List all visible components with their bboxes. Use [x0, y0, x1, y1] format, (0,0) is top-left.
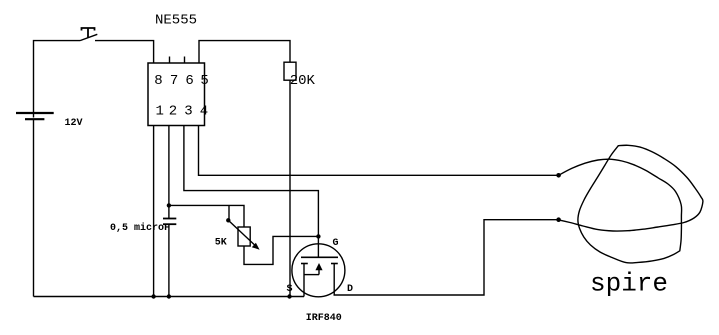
svg-text:D: D	[347, 284, 353, 295]
svg-text:IRF840: IRF840	[306, 313, 342, 324]
svg-text:0,5 microF: 0,5 microF	[110, 222, 170, 234]
svg-text:3: 3	[184, 104, 192, 120]
svg-text:G: G	[333, 238, 339, 249]
svg-text:6: 6	[185, 73, 193, 89]
svg-text:NE555: NE555	[155, 13, 197, 29]
svg-text:1: 1	[156, 104, 164, 120]
svg-text:4: 4	[200, 104, 208, 120]
svg-text:5K: 5K	[215, 238, 227, 249]
svg-text:2: 2	[169, 104, 177, 120]
svg-text:12V: 12V	[65, 118, 83, 129]
svg-text:8: 8	[154, 73, 162, 89]
svg-text:7: 7	[170, 73, 178, 89]
svg-text:spire: spire	[590, 269, 668, 299]
svg-text:20K: 20K	[290, 73, 316, 89]
svg-text:5: 5	[200, 73, 208, 89]
svg-text:S: S	[287, 284, 293, 295]
